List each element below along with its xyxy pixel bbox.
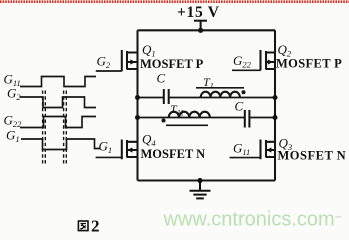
svg-text:C: C bbox=[235, 99, 244, 114]
wire top resonant branch bbox=[138, 97, 276, 99]
inductor T1 winding bbox=[201, 92, 240, 98]
svg-text:MOSFET N: MOSFET N bbox=[141, 147, 206, 161]
svg-text:MOSFET N: MOSFET N bbox=[278, 149, 347, 163]
node right rail junction bottom branch bbox=[273, 115, 278, 120]
transistor Q2 gate wire bbox=[232, 69, 261, 71]
wire G11 waveform trace bbox=[20, 77, 96, 87]
svg-text:+15 V: +15 V bbox=[177, 4, 220, 21]
svg-text:C: C bbox=[157, 71, 166, 86]
svg-text:MOSFET P: MOSFET P bbox=[140, 57, 204, 71]
svg-text:www.cntronics.com: www.cntronics.com bbox=[163, 209, 335, 231]
wire G22 waveform trace bbox=[20, 117, 96, 128]
node left rail junction top branch bbox=[135, 95, 140, 100]
capacitor C top plates bbox=[163, 89, 165, 104]
wire bottom ground rail bbox=[138, 179, 276, 181]
node +15V junction dot bbox=[198, 28, 203, 33]
wire left leg rail bbox=[136, 30, 138, 180]
transistor Q2 bbox=[261, 50, 276, 71]
transistor Q4 gate wire bbox=[96, 156, 122, 158]
wire G2 waveform trace bbox=[20, 97, 96, 108]
inductor T1 core line bbox=[196, 87, 244, 89]
node +15V terminal tick bbox=[194, 20, 207, 22]
svg-text:2: 2 bbox=[91, 217, 100, 236]
transistor Q3 gate wire bbox=[230, 157, 261, 159]
node ground junction dot bbox=[197, 178, 202, 183]
wire +15V feed stem bbox=[200, 21, 202, 31]
node left rail junction bottom branch bbox=[135, 115, 140, 120]
node T11 polarity dot bbox=[162, 119, 166, 123]
capacitor C bottom plates bbox=[244, 110, 246, 128]
transistor Q4 bbox=[122, 140, 138, 160]
dead-time dashed guide lines bbox=[43, 91, 67, 164]
transistor Q1 gate wire bbox=[96, 70, 122, 72]
transistor Q3 bbox=[261, 140, 276, 160]
node right rail junction top branch bbox=[273, 95, 278, 100]
wire right leg rail bbox=[274, 30, 276, 180]
wire bottom resonant branch bbox=[138, 117, 276, 119]
transistor Q1 bbox=[122, 50, 138, 71]
svg-text:MOSFET P: MOSFET P bbox=[276, 57, 342, 71]
ground bbox=[190, 181, 211, 199]
inductor T11 winding bbox=[169, 112, 210, 118]
figure caption 图 2 bbox=[78, 217, 99, 236]
node T1 polarity dot bbox=[242, 90, 246, 94]
wire G1 waveform trace bbox=[21, 139, 100, 150]
wire top supply rail bbox=[138, 29, 276, 31]
inductor T11 core line bbox=[166, 124, 208, 126]
